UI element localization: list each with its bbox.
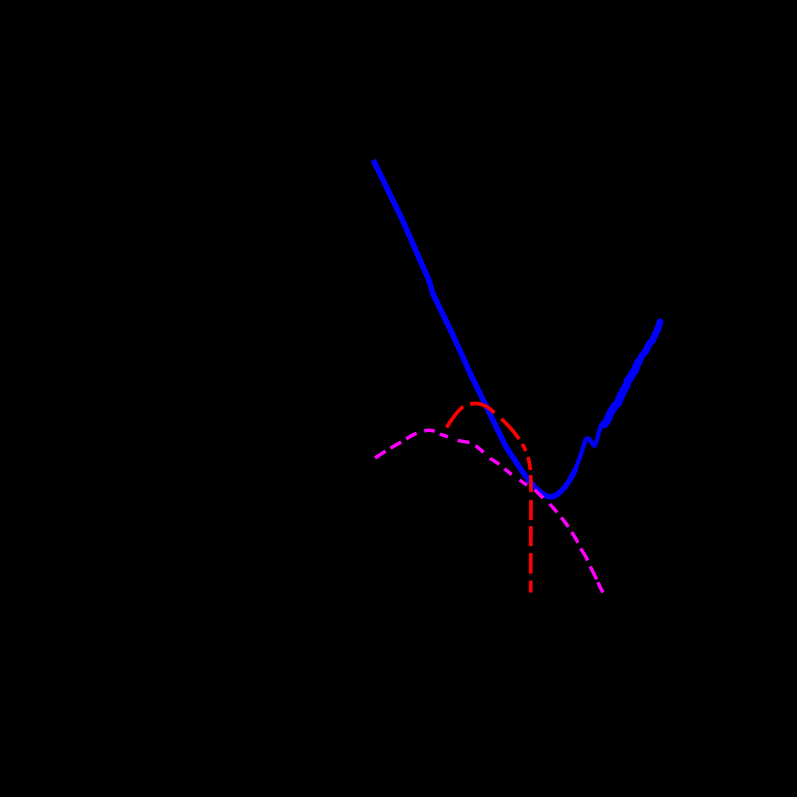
magenta dashed broad curve — [375, 430, 603, 592]
blue thin wiggle: steep rise, small bump and dip after the valley — [573, 424, 604, 475]
blue noisy ascending right branch, lower part — [603, 361, 640, 425]
blue noisy ascending right branch, upper part with rounded tip — [640, 322, 661, 361]
blue solid thick V-shaped curve: left branch, bottom valley and bump — [373, 160, 575, 497]
red dashed bell curve with vertical tail — [447, 403, 532, 592]
